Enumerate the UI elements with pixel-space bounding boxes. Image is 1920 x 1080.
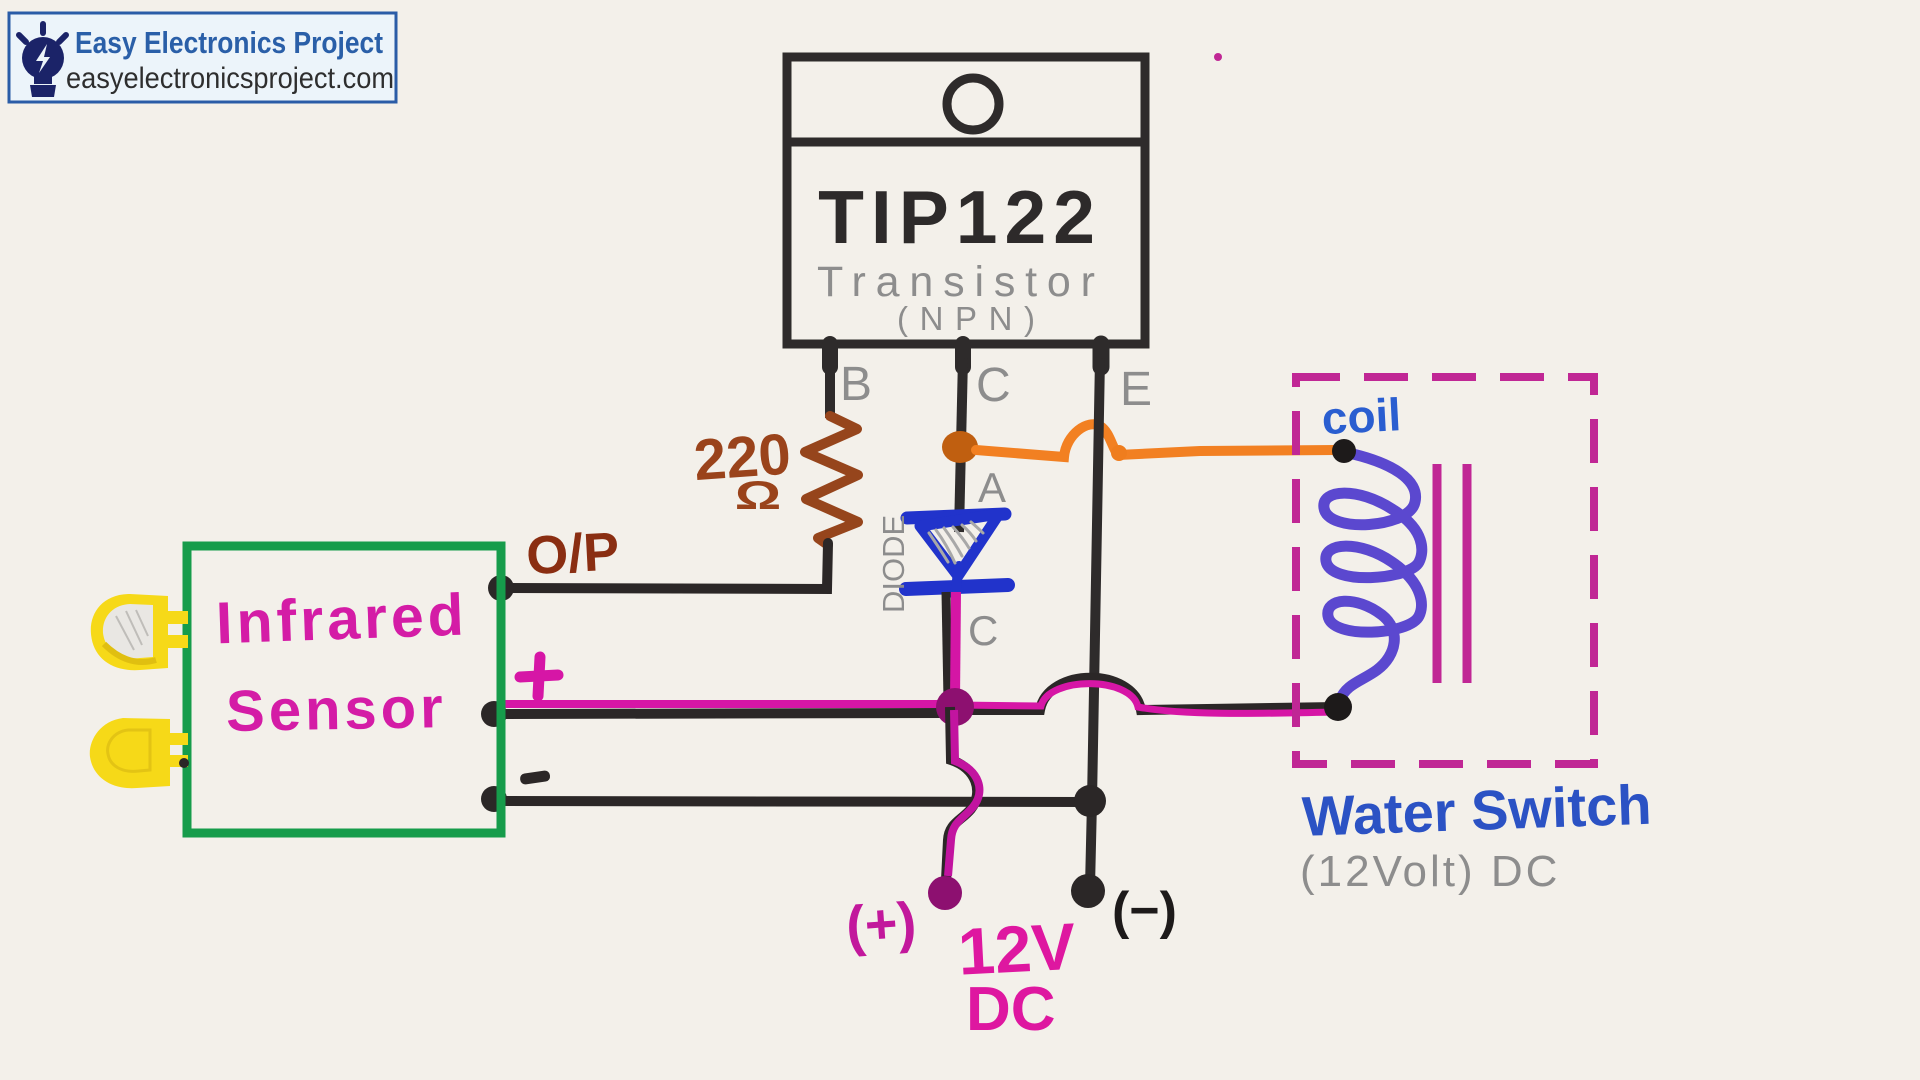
svg-text:A: A xyxy=(978,464,1006,511)
svg-text:easyelectronicsproject.com: easyelectronicsproject.com xyxy=(66,62,394,95)
svg-text:Transistor: Transistor xyxy=(817,258,1095,306)
svg-text:E: E xyxy=(1120,363,1152,416)
svg-text:Sensor: Sensor xyxy=(225,675,447,744)
svg-text:Ω: Ω xyxy=(735,473,781,518)
svg-text:(+): (+) xyxy=(844,890,918,958)
svg-text:C: C xyxy=(968,607,998,654)
svg-text:DC: DC xyxy=(966,975,1056,1044)
svg-text:Infrared: Infrared xyxy=(215,582,469,657)
svg-text:(−): (−) xyxy=(1112,882,1177,940)
svg-text:O/P: O/P xyxy=(525,521,621,586)
svg-text:(12Volt) DC: (12Volt) DC xyxy=(1300,847,1560,896)
svg-text:Water Switch: Water Switch xyxy=(1301,773,1653,848)
svg-text:TIP122: TIP122 xyxy=(818,175,1102,259)
svg-text:C: C xyxy=(976,359,1011,412)
svg-text:B: B xyxy=(840,358,872,411)
svg-text:coil: coil xyxy=(1320,388,1402,444)
svg-text:DIODE: DIODE xyxy=(876,515,911,613)
svg-text:Easy Electronics Project: Easy Electronics Project xyxy=(75,25,383,60)
